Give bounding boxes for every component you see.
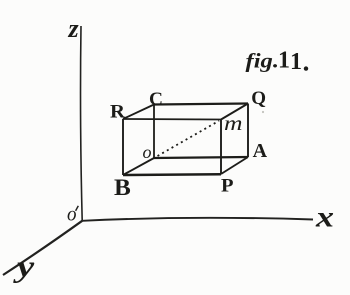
svg-text:C: C — [149, 89, 163, 110]
svg-text:fig.: fig. — [246, 49, 280, 73]
svg-text:P: P — [221, 176, 234, 197]
box edge P-m — [220, 120, 222, 175]
box edge Q-m — [221, 104, 248, 120]
box edge C-R — [123, 105, 154, 120]
box edge B-R — [122, 119, 124, 175]
svg-text:1: 1 — [290, 49, 302, 75]
svg-text:o: o — [67, 204, 77, 226]
box edge A-Q — [247, 104, 249, 158]
svg-text:A: A — [253, 140, 268, 162]
svg-text:z: z — [68, 14, 80, 43]
svg-text:o: o — [143, 142, 152, 162]
svg-text:B: B — [114, 175, 131, 200]
faint mark below Q — [262, 111, 264, 113]
svg-text:Q: Q — [251, 88, 266, 109]
x-axis — [82, 218, 313, 221]
box edge A-P — [221, 157, 248, 174]
svg-text:R: R — [110, 101, 125, 122]
svg-text:m: m — [224, 111, 243, 135]
diagonal o-m dotted — [158, 121, 220, 156]
box edge R-m — [123, 118, 221, 121]
svg-text:x: x — [315, 200, 334, 233]
box edge C-Q — [154, 104, 248, 105]
figure caption period — [304, 66, 308, 70]
svg-text:1: 1 — [278, 48, 290, 74]
origin label accent tick — [76, 206, 79, 211]
box edge B-P — [123, 173, 221, 176]
y-axis — [3, 221, 82, 275]
box edge o-C — [153, 105, 155, 159]
box edge o-B — [123, 158, 154, 175]
box edge o-A — [154, 157, 248, 158]
z-axis — [81, 26, 83, 221]
